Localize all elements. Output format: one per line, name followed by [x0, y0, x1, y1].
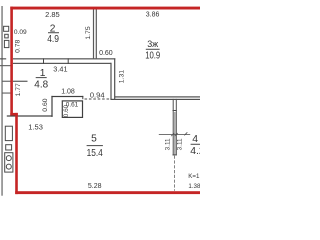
- wall W2 cross tick: [173, 110, 177, 111]
- svg-text:5: 5: [91, 134, 97, 145]
- svg-text:4.2: 4.2: [190, 146, 200, 157]
- svg-text:K=1,: K=1,: [188, 173, 200, 180]
- svg-text:0.09: 0.09: [14, 29, 27, 36]
- fixture rect T3 with circles: [5, 153, 13, 172]
- room2 right wall line 1: [93, 10, 94, 60]
- dim slash right end: [184, 132, 187, 135]
- svg-text:4.9: 4.9: [47, 34, 59, 45]
- red boundary left upper: [10, 7, 13, 116]
- wall W2 room5/room4 divider left line: [173, 99, 174, 155]
- svg-text:5.28: 5.28: [88, 183, 102, 190]
- stair rung 2: [2, 93, 12, 94]
- svg-text:1.77: 1.77: [15, 83, 22, 96]
- riser square S3: [4, 40, 8, 47]
- svg-text:2.85: 2.85: [45, 10, 60, 19]
- closet bottom wall: [7, 115, 53, 116]
- svg-text:1.38: 1.38: [188, 183, 200, 190]
- room 2 fraction line: [48, 31, 59, 34]
- svg-text:10.9: 10.9: [145, 51, 160, 62]
- svg-text:1.08: 1.08: [61, 89, 75, 96]
- svg-text:3ж: 3ж: [147, 38, 159, 49]
- closet top wall end stub: [82, 96, 83, 99]
- red boundary top: [10, 7, 200, 10]
- svg-text:1.75: 1.75: [85, 26, 92, 39]
- riser square S2: [5, 34, 9, 38]
- dim slash at wall left: [171, 133, 174, 136]
- stair rung 0: [0, 65, 12, 66]
- svg-text:3.41: 3.41: [53, 65, 67, 74]
- wall tick x68: [68, 58, 69, 64]
- room 3 fraction line: [146, 48, 160, 51]
- closet left wall: [51, 96, 52, 117]
- svg-text:4.8: 4.8: [34, 80, 48, 91]
- red boundary bottom: [15, 191, 200, 194]
- fixture small rect T2: [6, 145, 12, 150]
- red boundary jog: [10, 113, 17, 116]
- wall H2 top line (room3 bottom): [115, 96, 200, 97]
- fixture tall rect T1: [5, 126, 12, 140]
- wall W1 right line: [114, 58, 115, 99]
- wall W1 left line (1.31 wall): [110, 63, 111, 99]
- riser square S1: [4, 26, 9, 31]
- svg-text:3.86: 3.86: [146, 12, 160, 19]
- svg-text:1.53: 1.53: [28, 122, 43, 131]
- svg-text:0.78: 0.78: [15, 39, 22, 52]
- wall W2 right line: [176, 99, 177, 155]
- dimension line 3.11: [159, 133, 190, 136]
- svg-text:3.11: 3.11: [177, 138, 184, 150]
- neighbor wall left edge: [1, 6, 2, 196]
- dashed opening 0.94: [85, 98, 111, 100]
- dim line at 1.77: [13, 81, 28, 82]
- room2 right wall line 2: [96, 10, 97, 60]
- wall B room2/room1 divider bottom line: [13, 63, 112, 64]
- svg-text:0.94: 0.94: [90, 90, 105, 99]
- svg-text:4: 4: [192, 134, 198, 145]
- svg-text:1.31: 1.31: [118, 70, 125, 83]
- wall W2 bottom cap: [173, 154, 177, 155]
- svg-text:15.4: 15.4: [87, 148, 103, 159]
- svg-text:0.60: 0.60: [42, 98, 49, 111]
- svg-text:3.11: 3.11: [164, 138, 171, 150]
- dashed opening below W2: [174, 156, 176, 191]
- stair rung 1: [2, 81, 12, 82]
- wall tick x43: [43, 58, 44, 64]
- svg-text:0.60: 0.60: [99, 50, 113, 57]
- duct box: [62, 101, 82, 118]
- svg-text:0.60: 0.60: [63, 104, 70, 117]
- red boundary left lower: [15, 113, 18, 194]
- wall A room2/room1 divider top line: [13, 58, 115, 59]
- wall W2 fill: [174, 112, 176, 155]
- wall H2 bottom line: [110, 99, 200, 100]
- room 4 fraction line: [191, 143, 200, 146]
- dim slash at wall right: [175, 133, 178, 136]
- room 1 fraction line: [36, 76, 47, 79]
- wall stub left of red at top of room 1: [0, 58, 6, 59]
- closet top wall: [51, 96, 83, 97]
- room 5 fraction line: [87, 144, 103, 147]
